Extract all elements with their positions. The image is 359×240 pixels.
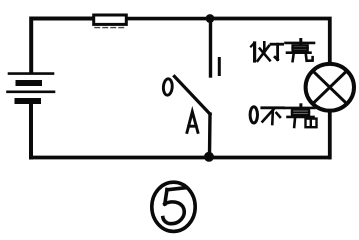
battery B (two cells) long plate 1 [9,72,53,75]
annotation char liang2 top tick [299,105,302,109]
wire top (left corner to resistor) [31,19,92,73]
annotation char liang (bright) top tick [299,40,302,44]
annotation char liang2 cover bar [288,116,314,119]
battery short thick plate 1 [19,80,40,86]
wire lamp bottom to corner [328,111,332,158]
annotation char bu center vertical [271,112,274,125]
switch blade (open, toward 0) [175,77,211,115]
annotation char liang left leg [293,54,294,61]
node junction top (dot) [206,14,215,23]
switch position label 0 [163,79,173,96]
switch S upper contact wire [209,19,212,76]
annotation char liang2 left leg [293,118,296,127]
node junction bottom (dot) [204,152,214,162]
annotation char liang middle box [293,45,308,50]
annotation char liang2 top bar [285,107,315,110]
lamp L (circle with X) [306,64,354,111]
annotation char liang top bar [286,42,315,45]
annotation char bu right dot [277,113,281,117]
resistor R (rectangular box on top wire) [94,15,210,28]
annotation char deng (lamp) fire radical [258,42,270,61]
figure number 5 glyph [163,188,184,224]
wire bottom [31,156,329,160]
figure number circle (5) ring [152,182,195,231]
annotation char bu left diagonal [263,108,275,121]
switch lower link to bottom node [208,114,212,156]
wire top right (junction to right corner) [210,19,330,64]
annotation char bu (not) top bar [262,106,284,109]
annotation digit 0 (of 0 bu liang) [250,107,257,123]
annotation char liang cover bar [287,51,311,54]
switch pivot label A [187,112,198,133]
annotation digit 1 (of 1 deng liang) [251,43,255,61]
wire left lower (battery to bottom wire) [29,104,33,158]
annotation char liang right leg hook [306,54,313,61]
battery short thick plate 2 [18,98,39,104]
annotation char liang2 right box leg [306,119,317,128]
battery long plate 2 [8,91,55,94]
annotation char liang2 middle box [292,110,309,116]
annotation char deng (lamp) ding part [271,44,283,59]
switch position label 1 (tick) [218,59,221,75]
